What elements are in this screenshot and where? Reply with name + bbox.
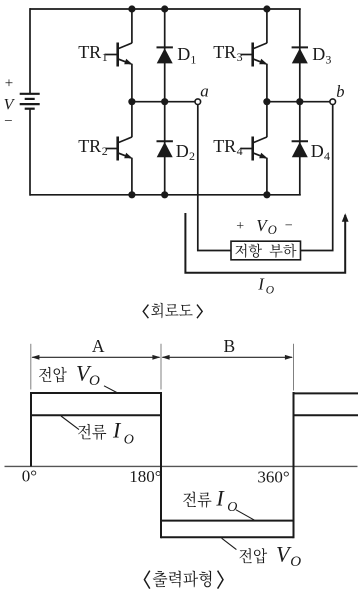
waveform edge 360 — [293, 392, 295, 538]
dimension line B — [162, 356, 292, 358]
junction bottom rail D2 — [161, 191, 168, 198]
battery V — [20, 94, 40, 109]
junction mid rail D1-D2 — [161, 98, 168, 105]
node b — [330, 99, 336, 105]
wire diode column D3 — [299, 9, 301, 102]
wire mid rail left — [132, 101, 195, 103]
diode D3 — [292, 47, 308, 63]
waveform tick 0 — [30, 344, 32, 390]
svg-text:4: 4 — [237, 144, 243, 158]
leader current negative — [236, 510, 255, 520]
leader voltage negative — [222, 538, 237, 549]
svg-text:a: a — [200, 81, 209, 100]
resistor load box — [231, 241, 301, 260]
waveform current line negative — [161, 520, 294, 522]
wire TR3 collector — [266, 9, 268, 43]
diode D1 — [157, 47, 173, 63]
svg-text:D: D — [176, 141, 189, 161]
waveform voltage bottom negative — [161, 536, 294, 538]
wire TR2 collector from mid rail — [131, 102, 133, 138]
dimension arrow B left — [162, 355, 170, 360]
diode D4 — [292, 141, 308, 157]
svg-text:I: I — [257, 275, 265, 294]
dimension arrow A right — [152, 355, 160, 360]
waveform tick 360 — [293, 344, 295, 391]
svg-text:I: I — [112, 418, 122, 443]
junction mid rail TR1-TR2 — [128, 98, 135, 105]
label TR4 — [213, 136, 242, 158]
svg-text:−: − — [4, 114, 12, 130]
wire TR4 emitter to bottom rail — [266, 158, 268, 195]
caption 출력파형 text — [153, 571, 168, 587]
svg-text:TR: TR — [213, 42, 236, 62]
svg-text:4: 4 — [324, 149, 330, 163]
junction mid rail D3-D4 — [296, 98, 303, 105]
svg-text:O: O — [266, 284, 275, 296]
wire TR3 emitter to mid rail — [266, 64, 268, 102]
wire TR2 emitter to bottom rail — [131, 158, 133, 195]
leader current positive — [61, 416, 79, 430]
junction top rail TR3 — [263, 5, 270, 12]
svg-text:+: + — [5, 75, 13, 91]
label load 저항 부하 — [235, 244, 246, 258]
diode D2 — [157, 141, 173, 157]
svg-text:b: b — [336, 82, 344, 101]
svg-text:0°: 0° — [22, 466, 37, 485]
svg-text:O: O — [227, 500, 237, 515]
waveform tick 180 — [160, 344, 162, 390]
label voltage Vo top — [39, 361, 100, 389]
transistor TR4 — [241, 137, 268, 161]
svg-text:−: − — [285, 219, 293, 234]
dimension line A — [32, 356, 159, 358]
waveform current line positive 2 — [294, 414, 358, 416]
svg-text:O: O — [268, 223, 277, 237]
label D3 — [312, 44, 331, 66]
svg-text:B: B — [223, 336, 235, 356]
junction top rail TR1 — [128, 5, 135, 12]
svg-text:TR: TR — [78, 136, 101, 156]
svg-text:D: D — [312, 44, 325, 64]
svg-text:2: 2 — [189, 149, 195, 163]
label voltage Vo negative — [239, 541, 301, 569]
caption 출력파형 bracket left — [144, 571, 149, 589]
transistor TR3 — [241, 43, 268, 67]
svg-text:1: 1 — [102, 50, 108, 64]
junction bottom rail TR4 — [263, 191, 270, 198]
label D2 — [176, 141, 195, 163]
junction bottom rail TR2 — [128, 191, 135, 198]
waveform axis — [5, 465, 358, 467]
svg-text:2: 2 — [102, 144, 108, 158]
svg-text:180°: 180° — [129, 467, 161, 486]
junction mid rail TR3-TR4 — [263, 98, 270, 105]
svg-text:3: 3 — [237, 50, 243, 64]
svg-text:TR: TR — [213, 136, 236, 156]
caption 회로도 bracket left — [143, 305, 148, 319]
wire TR1 emitter to mid rail — [131, 64, 133, 102]
label D1 — [177, 44, 196, 66]
svg-text:O: O — [124, 433, 134, 448]
wire diode column D1 — [164, 9, 166, 102]
label current Io positive — [78, 418, 134, 448]
caption 회로도 text — [151, 303, 162, 318]
svg-text:I: I — [215, 485, 225, 510]
svg-text:+: + — [236, 219, 244, 234]
svg-text:D: D — [311, 141, 324, 161]
svg-text:O: O — [290, 554, 301, 570]
arrow Io head — [342, 213, 349, 222]
dimension arrow A left — [31, 355, 39, 360]
waveform current line positive — [31, 414, 161, 416]
node a — [195, 99, 201, 105]
wire top rail — [30, 8, 301, 10]
wire TR1 collector — [131, 9, 133, 43]
caption 출력파형 bracket right — [218, 571, 223, 589]
svg-text:360°: 360° — [257, 467, 289, 486]
svg-text:TR: TR — [78, 42, 101, 62]
dimension arrow B right — [285, 355, 293, 360]
label TR3 — [213, 42, 242, 64]
wire mid rail right — [267, 101, 330, 103]
label TR1 — [78, 42, 108, 64]
waveform edge 180 — [160, 392, 162, 538]
label D4 — [311, 141, 330, 163]
wire left rail lower (battery -) — [29, 110, 31, 196]
svg-text:A: A — [92, 336, 105, 356]
svg-text:D: D — [177, 44, 190, 64]
wire node a to load — [198, 104, 231, 250]
wire TR4 collector from mid rail — [266, 102, 268, 138]
waveform voltage pulse positive 2 — [294, 392, 358, 394]
caption 회로도 bracket right — [197, 305, 202, 319]
wire node b to load — [301, 104, 333, 250]
wire bottom rail — [30, 194, 301, 196]
svg-text:O: O — [89, 373, 100, 389]
transistor TR1 — [106, 43, 133, 67]
wire diode column D4 — [299, 102, 301, 195]
svg-text:V: V — [4, 96, 16, 113]
label current Io negative — [183, 485, 237, 515]
label TR2 — [78, 136, 108, 158]
transistor TR2 — [106, 137, 133, 161]
wire Io current path — [185, 213, 345, 273]
leader voltage top — [104, 386, 117, 393]
svg-text:1: 1 — [190, 53, 196, 67]
wire diode column D2 — [164, 102, 166, 195]
svg-text:3: 3 — [325, 53, 331, 67]
junction top rail D1 — [161, 5, 168, 12]
wire left rail upper (battery +) — [29, 8, 31, 93]
waveform voltage pulse positive — [31, 393, 161, 466]
